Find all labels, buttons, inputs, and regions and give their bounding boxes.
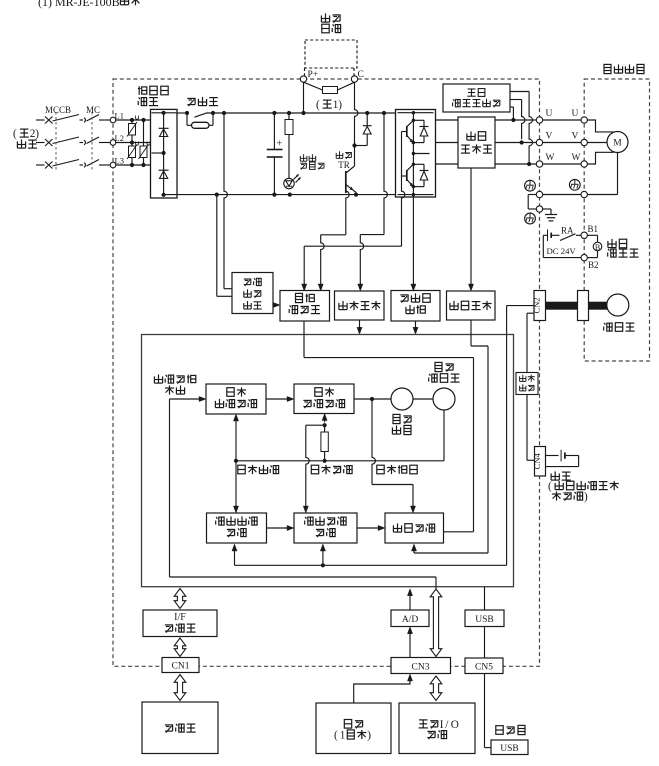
svg-text:USB: USB: [475, 615, 493, 625]
svg-text:): ): [367, 729, 371, 741]
svg-text:V: V: [546, 132, 553, 142]
svg-text:L3: L3: [115, 156, 124, 166]
svg-text:CN1: CN1: [172, 662, 190, 672]
svg-text:L1: L1: [115, 111, 124, 121]
svg-text:CN3: CN3: [412, 663, 430, 673]
svg-text:MC: MC: [86, 105, 100, 115]
svg-text:CN4: CN4: [532, 453, 542, 470]
svg-text:U: U: [546, 109, 553, 119]
svg-text:(: (: [316, 99, 320, 111]
svg-text:W: W: [546, 153, 555, 163]
svg-text:(: (: [548, 480, 552, 492]
svg-text:V: V: [572, 132, 579, 142]
svg-text:): ): [35, 128, 39, 140]
svg-text:TR: TR: [338, 160, 350, 170]
svg-text:(: (: [334, 729, 338, 741]
svg-text:B1: B1: [588, 224, 599, 234]
svg-text:U: U: [572, 109, 579, 119]
svg-text:I/F: I/F: [174, 612, 186, 623]
svg-text:+: +: [277, 139, 283, 150]
svg-text:): ): [338, 99, 342, 111]
svg-text:(1) MR-JE-100B: (1) MR-JE-100B: [38, 0, 120, 9]
svg-text:C: C: [358, 70, 364, 80]
svg-text:A/D: A/D: [402, 615, 419, 625]
svg-text:CN5: CN5: [475, 663, 493, 673]
svg-text:B: B: [595, 243, 600, 252]
svg-text:W: W: [572, 153, 581, 163]
svg-text:O: O: [451, 719, 459, 731]
svg-text:MCCB: MCCB: [45, 105, 71, 115]
svg-text:1: 1: [340, 729, 346, 741]
svg-text:L2: L2: [115, 133, 124, 143]
svg-text:RA: RA: [561, 226, 574, 236]
svg-text:(: (: [13, 128, 17, 140]
svg-text:B2: B2: [588, 260, 599, 270]
svg-text:P+: P+: [308, 70, 319, 80]
svg-text:DC 24V: DC 24V: [547, 246, 577, 256]
svg-text:I: I: [440, 719, 444, 731]
svg-text:USB: USB: [500, 744, 518, 754]
svg-text:M: M: [613, 139, 622, 149]
svg-text:): ): [584, 491, 588, 503]
